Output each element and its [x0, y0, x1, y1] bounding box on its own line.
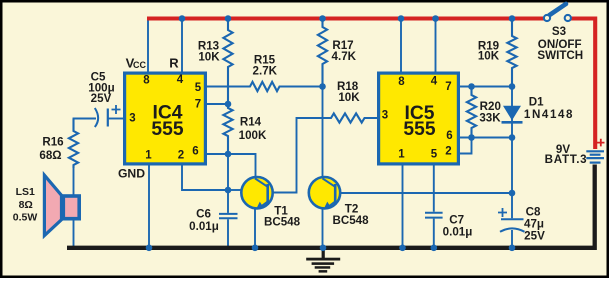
svg-text:4.7K: 4.7K	[332, 50, 357, 63]
wire T2 base to D1/C8 node	[336, 192, 513, 194]
IC4 pin 7	[195, 99, 201, 111]
svg-text:R14: R14	[240, 115, 262, 128]
svg-text:4: 4	[177, 74, 184, 86]
IC5 pin 2	[445, 146, 451, 158]
wire D1 node to C8	[511, 87, 513, 219]
IC5 pin 6	[446, 130, 452, 142]
wire IC4 pin8 to +V rail	[147, 18, 149, 72]
wire IC5 pin4 to +V rail	[435, 18, 437, 72]
svg-text:S3: S3	[552, 25, 567, 38]
wire T2 emitter to ground rail	[322, 208, 324, 249]
svg-text:25V: 25V	[524, 230, 545, 243]
svg-text:6: 6	[446, 130, 452, 142]
IC4 pin 4	[177, 74, 184, 86]
wire C6 to ground rail	[227, 219, 229, 248]
svg-text:8: 8	[398, 76, 405, 88]
svg-text:25V: 25V	[91, 92, 112, 105]
resistor R17 4.7K	[318, 19, 357, 87]
IC5 pin 5	[431, 149, 438, 161]
ground	[306, 250, 340, 272]
svg-text:8: 8	[143, 75, 150, 87]
junction dots on ground rail	[146, 245, 516, 252]
wire IC4 pin2 to node B	[182, 166, 228, 191]
wire ground rail (black)	[67, 165, 595, 248]
svg-text:C6: C6	[196, 207, 211, 220]
junction dots mid circuit	[225, 83, 516, 196]
resistor R19 10K	[478, 19, 517, 87]
resistor R14 100K	[223, 104, 267, 154]
svg-text:68Ω: 68Ω	[39, 149, 61, 162]
battery BATT.3 9V	[545, 139, 605, 166]
junction dots on +V rail	[179, 15, 516, 22]
wire C5 to R16	[74, 119, 97, 132]
op-amp U-IC5 555 timer	[379, 73, 459, 164]
svg-text:3: 3	[382, 110, 388, 122]
wire node B vertical (pin6 junction to node B)	[227, 154, 229, 190]
wire T1 emitter to ground rail	[254, 208, 256, 249]
IC5 pin 8	[398, 76, 405, 88]
svg-text:7: 7	[195, 99, 201, 111]
wire IC5 pin8 to +V rail	[400, 18, 402, 72]
switch S3 ON/OFF	[537, 4, 583, 62]
svg-text:LS1: LS1	[16, 186, 35, 198]
capacitor C8 47u 25V electrolytic	[498, 206, 545, 243]
svg-text:4: 4	[431, 76, 438, 88]
svg-text:BATT.3: BATT.3	[545, 153, 588, 166]
capacitor C6 0.01u	[189, 207, 237, 233]
svg-text:D1: D1	[529, 96, 544, 109]
wire IC4 pin5 through R15 to R17 junction	[207, 82, 323, 91]
wire IC5 pin5 to C7	[433, 166, 435, 212]
capacitor C7 0.01u	[425, 213, 472, 239]
resistor R16 68ohm	[39, 119, 78, 169]
wire IC4 pin6 to R14 bottom junction	[207, 153, 228, 155]
resistor R15 2.7K (label)	[253, 54, 278, 78]
transistor T2 BC548	[309, 177, 369, 227]
svg-text:BC548: BC548	[332, 214, 369, 227]
wire IC5 pin7 to R19/D1 node	[460, 86, 512, 88]
svg-text:0.01μ: 0.01μ	[443, 226, 473, 239]
IC5 pin 1	[398, 149, 405, 161]
IC4 pin 3	[129, 113, 135, 125]
wire IC4 pin7 to R13/R14 junction	[207, 103, 228, 105]
IC4 pin 6	[192, 146, 198, 158]
resistor R18 10K	[297, 80, 378, 122]
svg-text:R: R	[169, 56, 179, 71]
IC5 pin 3	[382, 110, 388, 122]
wire T1 base to R18	[269, 118, 332, 193]
svg-text:8Ω: 8Ω	[19, 199, 33, 211]
transistor T1 BC548	[241, 177, 300, 229]
IC5 pin 7	[445, 81, 451, 93]
node R label	[169, 56, 179, 71]
wire IC5 pin1 to ground rail	[402, 166, 404, 249]
IC4 pin 2	[178, 150, 184, 162]
wire +V rail (red)	[147, 17, 595, 150]
node GND label	[118, 166, 145, 180]
svg-text:CC: CC	[133, 60, 146, 70]
svg-text:GND: GND	[118, 166, 145, 180]
svg-text:0.5W: 0.5W	[13, 212, 38, 224]
svg-text:1: 1	[398, 149, 405, 161]
svg-text:2: 2	[445, 146, 451, 158]
svg-text:2: 2	[178, 150, 184, 162]
svg-text:10K: 10K	[198, 50, 220, 63]
svg-text:SWITCH: SWITCH	[537, 49, 583, 62]
resistor R13 10K	[198, 19, 233, 105]
IC4 pin 1	[145, 150, 152, 162]
wire C8 to ground rail	[511, 230, 513, 248]
wire IC5 pin2 up to pin6 line	[460, 138, 472, 154]
svg-text:2.7K: 2.7K	[253, 64, 278, 77]
wire T2 collector to R15/R17 junction	[322, 87, 324, 179]
wire IC4 pin4 to +V rail	[181, 18, 183, 72]
svg-text:C8: C8	[526, 206, 541, 219]
svg-text:R16: R16	[42, 136, 64, 149]
svg-text:10K: 10K	[338, 91, 360, 104]
wire IC4 pin1 to ground rail	[148, 166, 150, 249]
svg-text:3: 3	[129, 113, 135, 125]
svg-text:1N4148: 1N4148	[524, 108, 574, 121]
svg-text:555: 555	[403, 119, 435, 140]
resistor R20 33K	[467, 87, 501, 138]
capacitor C5 100u 25V electrolytic	[88, 71, 120, 128]
wire R16 to LS1 and ground rail	[73, 168, 75, 248]
svg-text:BC548: BC548	[264, 216, 301, 229]
wire pin6 junction to T1 collector	[228, 154, 256, 178]
IC5 pin 4	[431, 76, 438, 88]
svg-text:1: 1	[145, 150, 152, 162]
svg-text:5: 5	[431, 149, 438, 161]
op-amp U-IC4 555 timer	[125, 73, 206, 164]
svg-text:10K: 10K	[478, 50, 500, 63]
wire IC4 pin3 to C5	[108, 118, 123, 120]
wire C6 top lead from node B	[227, 190, 229, 213]
node Vcc label	[126, 56, 147, 71]
wire node B to T1	[228, 189, 242, 191]
svg-text:7: 7	[445, 81, 451, 93]
diode D1 1N4148	[502, 96, 575, 123]
wire C7 to ground rail	[433, 219, 435, 249]
IC4 pin 8	[143, 75, 150, 87]
svg-text:100K: 100K	[239, 129, 267, 142]
IC4 pin 5	[195, 82, 202, 94]
svg-text:0.01μ: 0.01μ	[189, 220, 219, 233]
svg-text:555: 555	[151, 119, 183, 140]
svg-text:6: 6	[192, 146, 198, 158]
speaker LS1 8ohm 0.5W	[13, 175, 79, 235]
svg-text:33K: 33K	[479, 112, 501, 125]
wire IC5 pin6 line to D1 cathode node	[460, 137, 512, 139]
svg-text:5: 5	[195, 82, 202, 94]
